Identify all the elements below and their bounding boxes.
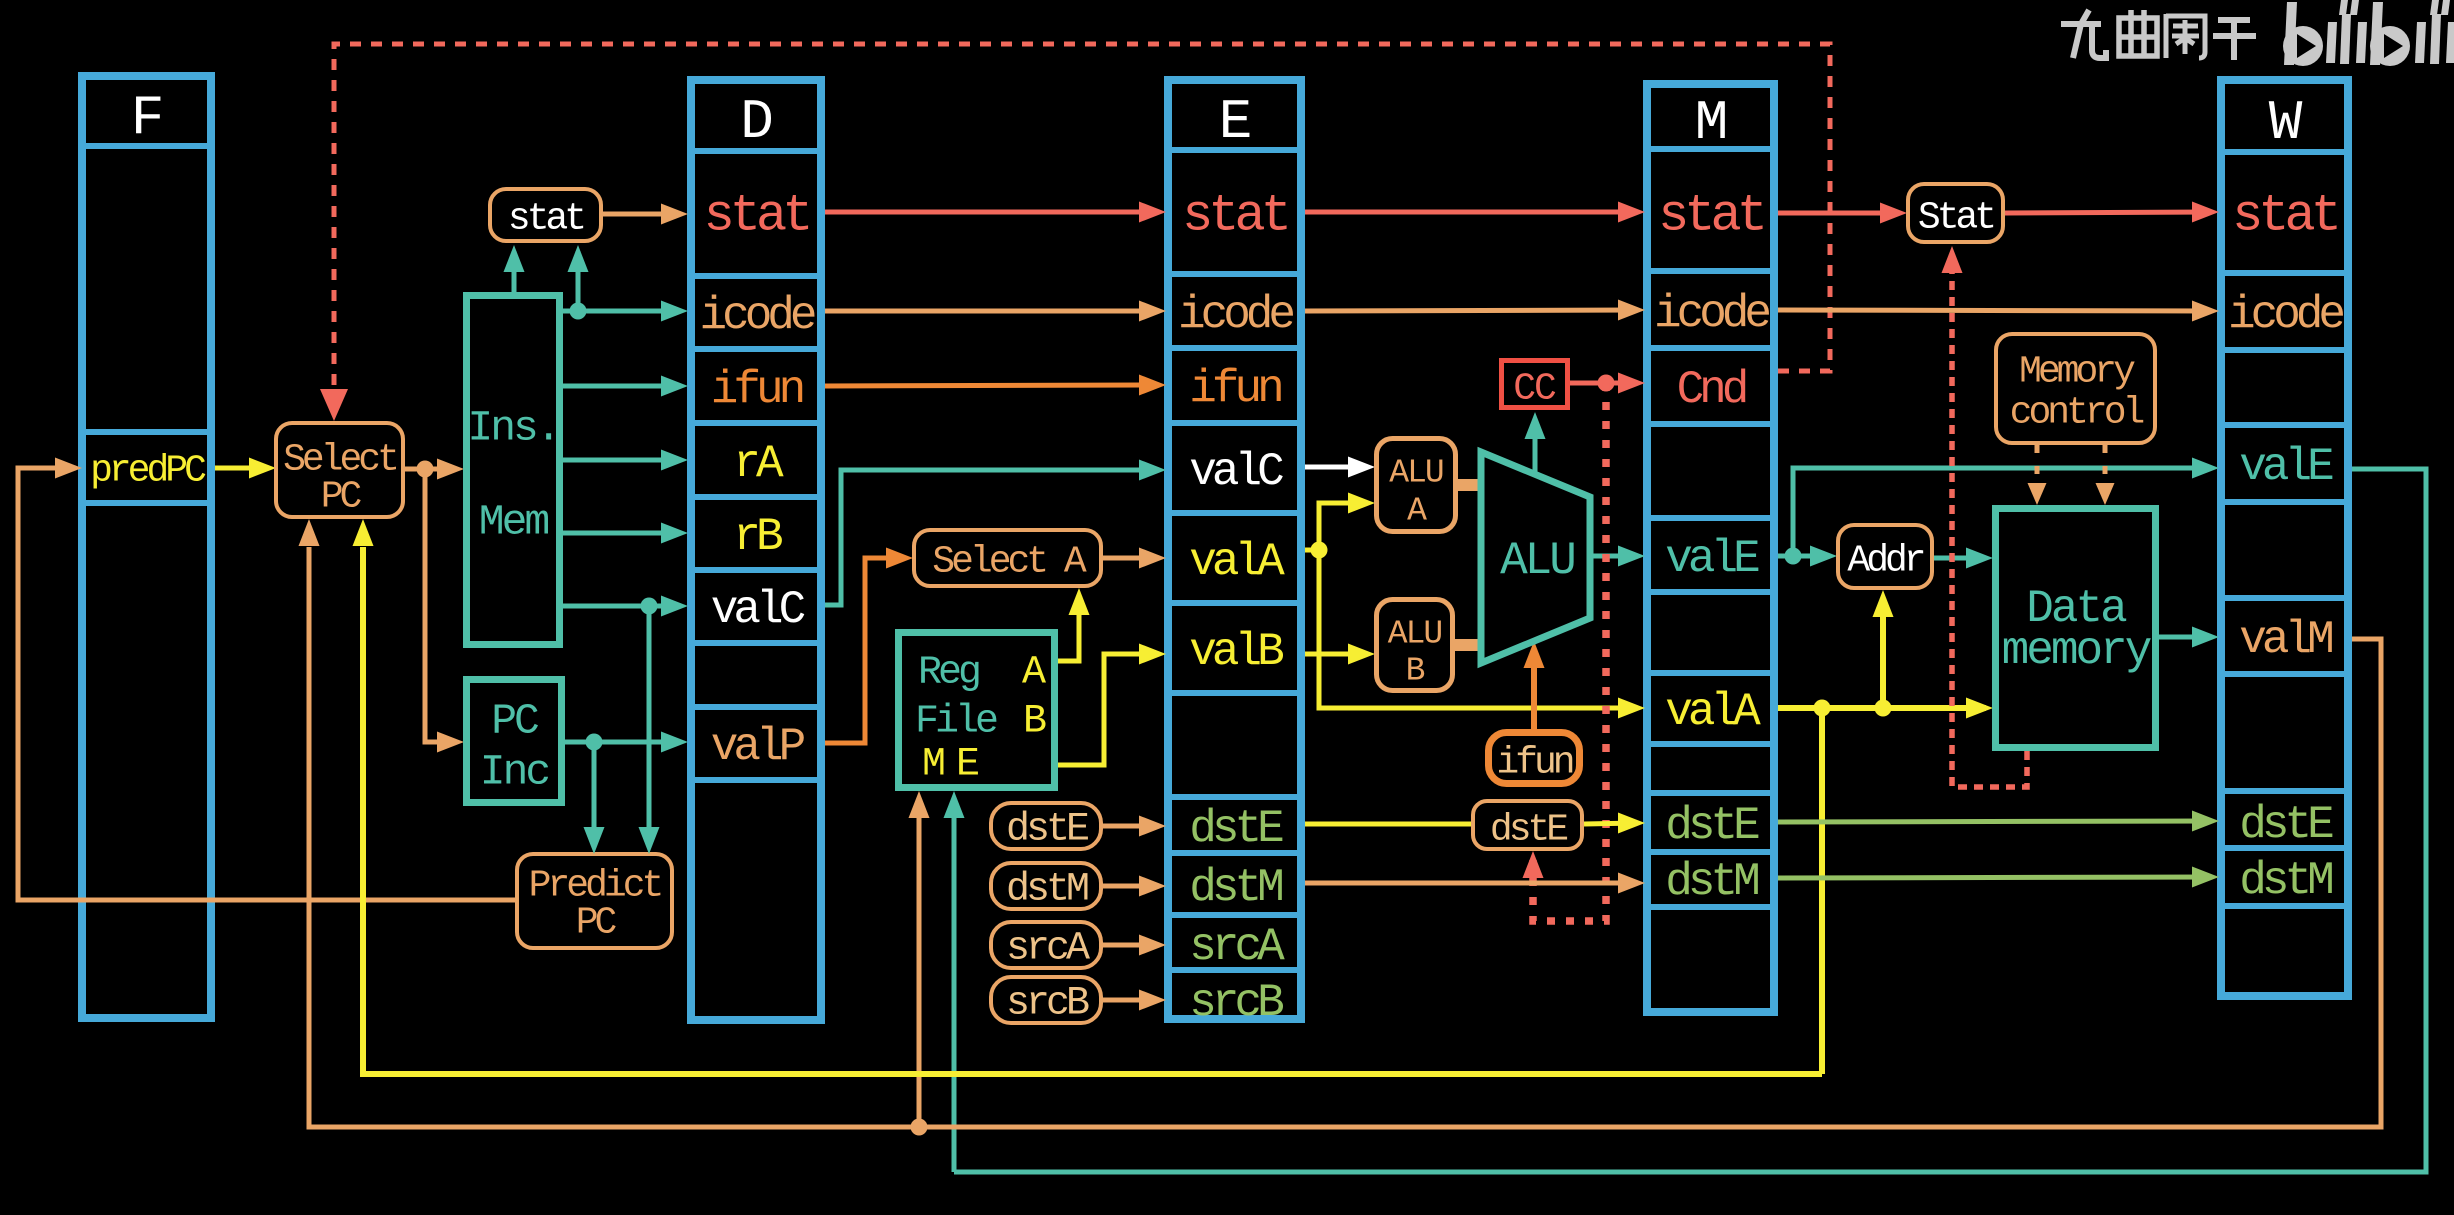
PC increment box xyxy=(467,680,562,803)
svg-text:dstM: dstM xyxy=(1006,868,1088,913)
wire dstE box to E.dstE (orange) xyxy=(1103,816,1166,837)
svg-text:E: E xyxy=(956,743,978,788)
svg-text:Addr: Addr xyxy=(1847,540,1923,583)
svg-text:dstM: dstM xyxy=(2239,855,2332,907)
wire W.valM feedback loop (orange) xyxy=(309,547,2381,1136)
wire stat box to D.stat (orange) xyxy=(603,204,688,225)
svg-text:stat: stat xyxy=(2232,187,2337,246)
wire M.dstE to W.dstE (green) xyxy=(1778,811,2219,832)
svg-text:dstE: dstE xyxy=(1665,800,1759,852)
wire E.dstE through dstE box to M.dstE (yellow) xyxy=(1305,822,1471,827)
wire ALU to CC (teal) xyxy=(1525,412,1546,472)
ALU input A box xyxy=(1377,439,1456,532)
wire E.valA to ALU A (yellow) xyxy=(1305,493,1375,559)
wire M.valA down to feedback (yellow) xyxy=(1819,708,1825,1074)
wire M.stat to Stat box (red) xyxy=(1778,203,1907,224)
svg-text:A: A xyxy=(1407,493,1427,530)
arrowhead memory control right xyxy=(2096,483,2115,505)
svg-text:F: F xyxy=(131,86,163,150)
ALU input B box xyxy=(1377,600,1453,691)
wire ifun box to ALU control (orange) xyxy=(1524,641,1545,729)
wire E.valB to ALU B (yellow) xyxy=(1305,644,1375,665)
svg-text:srcB: srcB xyxy=(1189,977,1283,1029)
svg-text:valP: valP xyxy=(711,721,805,773)
svg-text:Stat: Stat xyxy=(1918,197,1993,240)
svg-text:Select A: Select A xyxy=(932,541,1087,584)
wire srcA box to E.srcA (orange) xyxy=(1103,935,1166,956)
srcA source box (decode) xyxy=(991,922,1101,972)
CC condition codes box xyxy=(1502,361,1568,411)
arrowhead W.valM into Select PC xyxy=(299,519,320,546)
wire M.valA up to Addr (yellow) xyxy=(1873,590,1894,708)
svg-text:PC: PC xyxy=(576,902,617,945)
svg-text:icode: icode xyxy=(1654,288,1769,340)
wire srcB box to E.srcB (orange) xyxy=(1103,990,1166,1011)
svg-text:ALU: ALU xyxy=(1388,616,1442,653)
instruction memory box Ins. Mem xyxy=(467,296,560,645)
svg-text:stat: stat xyxy=(1658,187,1763,246)
wire E.stat to M.stat (red) xyxy=(1305,202,1645,223)
wire Memory control to Data memory left (orange dashed) xyxy=(2035,445,2040,497)
wire M.valE to W.valE (teal) xyxy=(1793,458,2219,557)
wire Ins.Mem to stat box (teal) xyxy=(504,245,525,292)
wire W.valE feedback loop (teal) xyxy=(954,469,2426,1172)
svg-text:stat: stat xyxy=(1182,187,1287,246)
svg-text:valA: valA xyxy=(1665,686,1761,738)
Select PC logic box xyxy=(276,423,403,519)
wire W.valE up into Reg File port E (teal) xyxy=(944,791,965,1172)
svg-text:M: M xyxy=(922,743,944,788)
svg-text:dstE: dstE xyxy=(2239,799,2333,851)
wire Data memory to W.valM (teal) xyxy=(2159,627,2219,648)
wire Reg File port B to E.valB (yellow) xyxy=(1058,644,1166,766)
srcB source box (decode) xyxy=(991,977,1101,1027)
svg-text:dstE: dstE xyxy=(1006,808,1088,853)
svg-text:valC: valC xyxy=(711,584,805,636)
svg-text:control: control xyxy=(2010,392,2144,435)
svg-text:Memory: Memory xyxy=(2019,351,2135,394)
wire M.dstM to W.dstM (green) xyxy=(1778,867,2219,888)
Select A logic box xyxy=(914,530,1101,586)
Data memory box xyxy=(1996,509,2156,748)
svg-text:ifun: ifun xyxy=(1496,742,1572,785)
wire E.valC to ALU A (white) xyxy=(1305,457,1375,478)
svg-text:Inc: Inc xyxy=(480,748,549,797)
svg-text:Ins.: Ins. xyxy=(467,404,558,453)
svg-text:Reg: Reg xyxy=(918,651,979,696)
svg-text:W: W xyxy=(2269,91,2303,155)
arrowhead M.Cnd dashed into Select PC xyxy=(320,389,348,421)
pipeline register column W xyxy=(2221,80,2348,996)
wire PC Inc to D.valP (teal) xyxy=(565,732,688,753)
svg-text:icode: icode xyxy=(2228,289,2343,341)
watermark text 九曲阑干 xyxy=(2061,10,2256,60)
wire valC branch down to Predict PC (teal) xyxy=(639,606,660,854)
wire W.valM up into Reg File port M (orange) xyxy=(909,791,930,1126)
wire CC to M.Cnd (red) xyxy=(1570,373,1645,394)
wire D.valP to Select A (orange) xyxy=(825,548,913,744)
wire Addr to Data memory (teal) xyxy=(1934,548,1993,569)
arrowhead memory control left xyxy=(2028,483,2047,505)
pipeline register column M xyxy=(1647,84,1774,1012)
ALU trapezoid xyxy=(1481,452,1590,663)
wire icode junction to stat box (teal) xyxy=(568,245,589,311)
svg-text:File: File xyxy=(915,700,997,745)
arrowhead M.valA into Select PC xyxy=(353,519,374,546)
svg-text:memory: memory xyxy=(2002,625,2152,677)
wire condition dashed down to dstE select (red dashed) xyxy=(1533,383,1606,921)
svg-text:valB: valB xyxy=(1189,626,1283,678)
svg-text:B: B xyxy=(1023,700,1046,745)
svg-text:ALU: ALU xyxy=(1389,455,1443,492)
svg-text:ALU: ALU xyxy=(1500,535,1574,587)
svg-text:B: B xyxy=(1406,653,1425,690)
wire F.predPC to Select PC (yellow) xyxy=(215,458,276,479)
wire Stat box to W.stat (red) xyxy=(2005,202,2219,223)
wire data memory error to Stat (red dashed) xyxy=(1952,254,2027,787)
svg-text:Mem: Mem xyxy=(479,498,549,547)
arrowhead dmem error dashed into Stat box xyxy=(1942,246,1963,273)
wire Ins.Mem to D.rA (teal) xyxy=(563,450,688,471)
wire Select A to E.valA (orange) xyxy=(1103,548,1166,569)
Memory control box xyxy=(1996,334,2155,443)
wire D.icode to E.icode (orange) xyxy=(825,301,1166,322)
wire M.icode to W.icode (orange) xyxy=(1778,301,2219,322)
wire Ins.Mem to D.icode (teal) xyxy=(563,301,688,322)
dstE source box (decode) xyxy=(991,803,1101,853)
wire Reg File port A to Select A (yellow) xyxy=(1058,588,1090,661)
watermark bilibili logo xyxy=(2283,0,2454,66)
svg-text:dstM: dstM xyxy=(1665,856,1758,908)
wire E.valA to M.valA (yellow long) xyxy=(1319,550,1645,719)
wire Memory control to Data memory right (orange dashed) xyxy=(2103,445,2108,497)
svg-text:Cnd: Cnd xyxy=(1677,364,1746,416)
wire D.valC to E.valC (teal) xyxy=(825,460,1166,606)
wire ALU to M.valE (teal) xyxy=(1590,546,1645,567)
dstM source box (decode) xyxy=(991,863,1101,913)
svg-text:CC: CC xyxy=(1513,368,1556,411)
svg-text:ifun: ifun xyxy=(1189,363,1281,415)
svg-text:valM: valM xyxy=(2239,614,2332,666)
ifun source box (execute) xyxy=(1489,733,1580,785)
wire M.valE to Addr (teal) xyxy=(1778,546,1837,567)
Addr logic box xyxy=(1838,525,1932,588)
dstE forward box (execute) xyxy=(1473,801,1582,852)
svg-text:stat: stat xyxy=(704,187,809,246)
pipeline register column D xyxy=(691,80,821,1020)
wire Predict PC to F.predPC (orange feedback) xyxy=(18,458,515,901)
svg-text:PC: PC xyxy=(321,476,362,519)
connector ALU A to ALU xyxy=(1458,479,1483,491)
svg-text:ifun: ifun xyxy=(711,364,803,416)
svg-text:icode: icode xyxy=(1178,289,1293,341)
svg-text:icode: icode xyxy=(699,290,814,342)
wire D.ifun to E.ifun (orange) xyxy=(825,375,1166,396)
pipeline register column E xyxy=(1168,80,1301,1029)
wire M.valA feedback to Select PC (yellow) xyxy=(363,547,1822,1074)
wire E.dstM to M.dstM (orange) xyxy=(1305,873,1645,894)
svg-text:dstE: dstE xyxy=(1189,803,1283,855)
svg-text:valA: valA xyxy=(1189,536,1285,588)
svg-text:valE: valE xyxy=(2239,441,2333,493)
wire PC Inc branch down to Predict PC (teal) xyxy=(584,742,605,854)
wire Ins.Mem to D.ifun (teal) xyxy=(563,376,688,397)
wire dstM box to E.dstM (orange) xyxy=(1103,876,1166,897)
svg-text:D: D xyxy=(740,90,772,154)
svg-text:srcA: srcA xyxy=(1189,921,1285,973)
svg-text:srcA: srcA xyxy=(1006,927,1090,972)
wire Select PC branch down to PC increment (orange) xyxy=(425,469,464,753)
pipeline register column F xyxy=(82,76,211,1018)
svg-text:rA: rA xyxy=(733,438,784,490)
svg-text:predPC: predPC xyxy=(90,450,206,493)
wire M.valA to Data memory (yellow) xyxy=(1778,698,1993,719)
svg-text:dstE: dstE xyxy=(1490,809,1567,852)
wire Ins.Mem to D.valC (teal) xyxy=(563,596,688,617)
svg-text:M: M xyxy=(1695,91,1727,155)
svg-text:PC: PC xyxy=(491,697,538,746)
wire Select PC to Ins.Mem / PC Inc (orange) xyxy=(405,459,464,480)
Predict PC logic box xyxy=(517,854,672,948)
svg-text:E: E xyxy=(1219,90,1251,154)
wire D.stat to E.stat (red) xyxy=(825,202,1166,223)
Stat logic box (memory) xyxy=(1908,184,2003,242)
svg-text:srcB: srcB xyxy=(1006,982,1089,1027)
svg-text:stat: stat xyxy=(508,198,583,241)
wire dstE box to M.dstE (yellow) xyxy=(1584,813,1645,834)
svg-text:valE: valE xyxy=(1665,533,1759,585)
wire M.Cnd to Select PC (red dashed misprediction) xyxy=(334,44,1830,391)
wire Ins.Mem to D.rB (teal) xyxy=(563,523,688,544)
arrowhead condition dashed into dstE box xyxy=(1523,851,1544,878)
svg-text:rB: rB xyxy=(733,511,782,563)
svg-text:dstM: dstM xyxy=(1189,862,1282,914)
svg-text:valC: valC xyxy=(1189,446,1283,498)
wire E.icode to M.icode (orange) xyxy=(1305,300,1645,321)
connector ALU B to ALU xyxy=(1455,639,1483,651)
register file box xyxy=(899,633,1055,788)
stat logic box (decode) xyxy=(490,189,601,241)
